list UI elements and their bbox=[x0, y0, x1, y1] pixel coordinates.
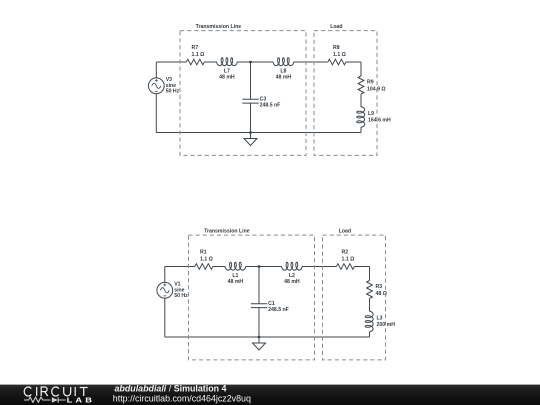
svg-text:R8: R8 bbox=[333, 45, 340, 51]
wire: left vertical source leads bbox=[164, 267, 166, 338]
svg-text:L7: L7 bbox=[224, 68, 230, 74]
svg-text:L3: L3 bbox=[377, 316, 383, 322]
svg-text:abdulabdiali / Simulation 4: abdulabdiali / Simulation 4 bbox=[115, 384, 227, 394]
svg-text:1.1 Ω: 1.1 Ω bbox=[342, 256, 355, 262]
node: junction bottom rail / C1 / ground bbox=[258, 336, 261, 339]
annotation box: Transmission Line bbox=[189, 235, 315, 360]
wire: L9 to bottom rail bbox=[360, 128, 362, 133]
capacitor C1 bbox=[251, 304, 267, 308]
svg-text:L1: L1 bbox=[232, 273, 238, 279]
svg-text:104.9 Ω: 104.9 Ω bbox=[367, 87, 386, 93]
resistor R8 bbox=[328, 59, 346, 65]
annotation box: Load bbox=[323, 235, 386, 360]
logo diode bbox=[52, 397, 58, 402]
svg-text:Transmission Line: Transmission Line bbox=[204, 228, 250, 234]
wire: R7 to L7 bbox=[204, 61, 216, 63]
ground bbox=[244, 133, 257, 146]
svg-text:48 mH: 48 mH bbox=[284, 279, 300, 285]
svg-text:48 mH: 48 mH bbox=[219, 75, 235, 81]
node: junction L7/L8/C3 bbox=[249, 61, 252, 64]
wire: R8 to right corner bbox=[346, 61, 361, 63]
svg-text:http://circuitlab.com/cd464jcz: http://circuitlab.com/cd464jcz2v8uq bbox=[113, 393, 251, 403]
resistor R3 bbox=[367, 281, 373, 299]
wire: bottom rail bbox=[165, 336, 370, 338]
wire: capacitor branch lower bbox=[250, 103, 252, 132]
svg-text:R3: R3 bbox=[376, 284, 383, 290]
svg-text:48 mH: 48 mH bbox=[228, 279, 244, 285]
wire: L1 to node, node to L2 bbox=[246, 266, 282, 268]
wire: L8 to R8 bbox=[294, 61, 328, 63]
inductor L7 bbox=[216, 58, 237, 66]
wire: bottom rail bbox=[156, 132, 361, 134]
footer black bar bbox=[0, 385, 540, 405]
node: junction bottom rail / C3 / ground bbox=[249, 131, 252, 134]
wire: top rail, source to R7 bbox=[156, 61, 186, 63]
svg-text:1.1 Ω: 1.1 Ω bbox=[200, 256, 213, 262]
svg-text:R1: R1 bbox=[200, 250, 207, 256]
capacitor C3 bbox=[242, 99, 258, 103]
annotation box: Load bbox=[314, 31, 377, 156]
svg-text:R9: R9 bbox=[367, 80, 374, 86]
svg-text:164.6 mH: 164.6 mH bbox=[368, 118, 391, 124]
svg-text:1.1 Ω: 1.1 Ω bbox=[333, 52, 346, 58]
inductor L3 bbox=[365, 311, 373, 332]
wire: right vertical down to R9 bbox=[360, 62, 362, 76]
resistor R7 bbox=[186, 59, 204, 65]
wire: capacitor branch lower bbox=[258, 308, 260, 337]
logo wire with resistor bbox=[24, 397, 51, 402]
svg-text:Load: Load bbox=[339, 228, 351, 234]
svg-text:50 Hz: 50 Hz bbox=[166, 89, 180, 95]
inductor L8 bbox=[273, 58, 294, 66]
svg-text:LAB: LAB bbox=[67, 397, 95, 405]
wire: capacitor branch upper bbox=[258, 267, 260, 304]
resistor R9 bbox=[358, 76, 364, 94]
wire: capacitor branch upper bbox=[250, 62, 252, 99]
inductor L9 bbox=[357, 107, 365, 128]
resistor R1 bbox=[195, 264, 213, 270]
resistor R2 bbox=[336, 264, 354, 270]
voltage source V3 (sine, 50 Hz) bbox=[148, 78, 164, 94]
inductor L2 bbox=[281, 262, 302, 270]
svg-text:Transmission Line: Transmission Line bbox=[196, 24, 242, 30]
wire: left vertical source leads bbox=[155, 62, 157, 133]
node: junction L1/L2/C1 bbox=[258, 265, 261, 268]
wire: R1 to L1 bbox=[213, 266, 225, 268]
svg-text:1.1 Ω: 1.1 Ω bbox=[192, 52, 205, 58]
svg-text:L2: L2 bbox=[289, 273, 295, 279]
svg-text:L9: L9 bbox=[368, 111, 374, 117]
wire: L2 to R2 bbox=[302, 266, 336, 268]
annotation box: Transmission Line bbox=[180, 31, 306, 156]
wire: R3 to L3 bbox=[369, 299, 371, 312]
voltage source V1 (sine, 50 Hz) bbox=[157, 282, 173, 298]
wire: L3 to bottom rail bbox=[369, 332, 371, 337]
svg-text:Load: Load bbox=[330, 24, 342, 30]
svg-text:248.5 nF: 248.5 nF bbox=[268, 307, 289, 313]
wire: right vertical down to R3 bbox=[369, 267, 371, 281]
wire: R2 to right corner bbox=[354, 266, 369, 268]
svg-text:R2: R2 bbox=[342, 250, 349, 256]
svg-text:50 Hz: 50 Hz bbox=[174, 293, 188, 299]
svg-text:R7: R7 bbox=[192, 45, 199, 51]
ground bbox=[253, 337, 266, 350]
wire: top rail, source to R1 bbox=[165, 266, 195, 268]
svg-text:48 mH: 48 mH bbox=[276, 75, 292, 81]
svg-text:L8: L8 bbox=[280, 68, 286, 74]
wire: L7 to node, node to L8 bbox=[237, 61, 273, 63]
CircuitLab logo wordmark CIRCUIT (thin stroked letters) bbox=[24, 387, 88, 396]
wire: R9 to L9 bbox=[360, 94, 362, 107]
inductor L1 bbox=[225, 262, 246, 270]
svg-text:248.5 nF: 248.5 nF bbox=[260, 102, 281, 108]
